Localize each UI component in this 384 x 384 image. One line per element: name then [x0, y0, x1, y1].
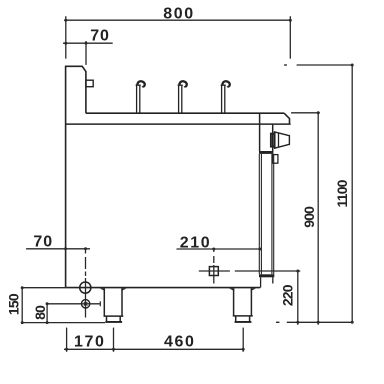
floor line left: [22, 322, 105, 324]
worktop right chamfer: [284, 113, 289, 124]
dim 170/460 line: [64, 348, 243, 350]
dim 70 mid line: [26, 248, 90, 250]
dim 150 line: [22, 288, 65, 323]
dim 460 right tick: [242, 328, 244, 352]
burner valve 1: [136, 81, 145, 113]
svg-text:210: 210: [180, 234, 212, 251]
dim 70 mid end dots: [64, 247, 87, 250]
svg-text:900: 900: [301, 206, 317, 228]
svg-text:150: 150: [5, 293, 21, 315]
lower circle horizontal line: [47, 303, 100, 305]
dim 1100 top extension dash: [284, 64, 287, 66]
dim 70 top line: [63, 42, 113, 44]
floor line right dot: [276, 321, 279, 323]
dim 1100 top extension: [297, 64, 354, 66]
dim 170 left tick: [66, 328, 68, 352]
right panel lower right pair: [272, 154, 274, 274]
worktop surface: [86, 112, 284, 114]
svg-text:170: 170: [74, 334, 106, 351]
backsplash top edge: [65, 66, 86, 113]
right panel bottom bar: [259, 274, 274, 277]
svg-text:800: 800: [163, 5, 195, 22]
gas inlet upper circle: [80, 282, 91, 293]
right panel upper left line: [259, 113, 261, 151]
dim 70 top right extension: [85, 41, 87, 65]
svg-text:80: 80: [32, 305, 48, 320]
right panel lower left pair: [259, 154, 261, 274]
svg-text:220: 220: [280, 284, 296, 306]
bottom dim dots: [65, 348, 245, 351]
dim 220 end dots: [296, 270, 299, 324]
dim 170 right tick: [113, 328, 115, 352]
svg-text:460: 460: [164, 334, 196, 351]
dim 800 right extension: [289, 16, 291, 59]
knob mounting plate: [271, 134, 275, 147]
right leg: [233, 288, 253, 321]
dim 70 top end dots: [64, 42, 87, 45]
knob cone: [275, 132, 290, 148]
dim 210 end dots: [212, 248, 261, 251]
crosshair horizontal: [199, 270, 300, 272]
gas inlet centerline: [85, 249, 87, 318]
right panel upper right line: [272, 124, 274, 151]
right leg flares: [229, 288, 256, 291]
gas bracket: [273, 155, 278, 164]
crosshair square: [209, 267, 218, 276]
dim 800 left extension: [65, 16, 67, 59]
left leg flares: [100, 288, 127, 291]
dim 900 line: [317, 113, 319, 325]
dim 800 line: [64, 19, 290, 21]
lower circle diagonals: [84, 302, 88, 306]
dim 210 line: [177, 248, 260, 250]
backsplash bump square: [86, 80, 93, 87]
dim 1100 end dots: [351, 64, 354, 324]
floor line right: [287, 321, 354, 323]
dim 80 line: [46, 304, 48, 323]
dim 900 top extension: [291, 112, 320, 114]
gas inlet lower circle: [81, 300, 89, 308]
burner valve 2: [178, 81, 187, 113]
right panel thick bar: [259, 151, 273, 154]
crosshair vertical: [213, 249, 215, 284]
dim 1100 line: [351, 65, 353, 322]
left leg: [104, 288, 124, 321]
dim 220 line: [297, 271, 299, 325]
lower circle line end tick: [99, 301, 101, 306]
body left edge: [65, 66, 67, 287]
dim 800 end dots: [64, 19, 291, 22]
dim 900 end dots: [317, 111, 320, 323]
body mid horizontal line: [66, 123, 291, 125]
burner valve 3: [221, 81, 230, 113]
knob flange line: [278, 133, 280, 147]
right panel lower stubs: [261, 277, 273, 287]
dim 80 end dots: [46, 302, 49, 324]
body bottom edge: [66, 287, 261, 289]
svg-text:1100: 1100: [334, 179, 350, 207]
dim 150 end dots: [21, 286, 24, 324]
svg-text:70: 70: [90, 27, 110, 44]
svg-text:70: 70: [33, 234, 53, 251]
